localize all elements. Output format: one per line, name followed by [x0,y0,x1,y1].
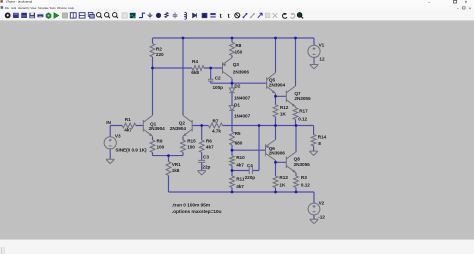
icon: zoom in [97,13,101,17]
wire Q3 collector / Q5 base row [211,79,267,84]
ground below R14 [309,151,317,155]
svg-text:A: A [157,13,160,18]
svg-text:1k8: 1k8 [172,168,180,173]
transistor Q2 (mirrored) [183,115,192,136]
transistor Q7 [286,86,295,107]
svg-text:C4: C4 [247,163,253,168]
icon: cross probe (pale) [273,13,278,18]
icon: capacitor [173,12,178,18]
icon: component [202,13,208,18]
wire Q2 collector to rail [182,38,184,115]
svg-text:4k7: 4k7 [236,163,244,168]
node dots output row [258,124,261,127]
icon: pane vertical [70,13,76,18]
svg-text:IN: IN [106,120,111,125]
resistor R12 [273,105,278,117]
wire R3 leads [295,173,297,192]
svg-text:R12: R12 [280,105,289,110]
svg-text:2N3055: 2N3055 [294,162,311,167]
icon: label [156,13,161,18]
svg-text:100p: 100p [213,85,224,90]
node dot R4/C2/Q3 base [209,67,212,70]
icon: undo [283,13,287,18]
transistor Q1 [143,115,152,136]
resistor R6 [199,140,204,152]
wire Q7 collector to rail [295,38,297,86]
svg-text:V2: V2 [319,201,325,206]
node dot Q6 collector / R13 / Q8 base [274,161,277,164]
svg-text:22p: 22p [202,165,210,170]
svg-text:Simulate: Simulate [38,6,49,10]
icon: wire [139,13,145,17]
svg-text:1K: 1K [279,183,286,188]
wire Q1 emitter / R9 leads [152,137,154,156]
wire output row [223,126,314,152]
svg-text:2N3904: 2N3904 [149,126,166,131]
icon: diode [193,13,197,17]
resistor R14 [311,135,316,146]
svg-text:Help: Help [68,6,74,10]
icon: inductor [185,12,187,19]
wire V1 to rail [313,38,315,45]
svg-text:220p: 220p [245,175,256,180]
wire V3 leads [109,126,111,160]
ground below V1 [310,65,318,69]
icon: zoom out [105,13,109,17]
svg-text:Hierarchy: Hierarchy [18,6,30,10]
svg-text:R2: R2 [156,46,162,51]
svg-text:R8: R8 [235,43,241,48]
wire R17 leads [295,107,297,126]
wire R6 leads [201,126,203,161]
svg-text:SINE(0 0.9 1K): SINE(0 0.9 1K) [115,147,147,152]
svg-text:R15: R15 [187,139,196,144]
svg-text:R17: R17 [299,109,308,114]
transistor Q5 [267,73,276,94]
resistor R1 [122,123,136,128]
svg-text:4k7: 4k7 [206,144,214,149]
svg-text:6k8: 6k8 [191,70,199,75]
node dot Q3 collector [231,82,234,85]
svg-text:0.12: 0.12 [301,183,310,188]
svg-text:R13: R13 [279,175,288,180]
svg-text:Q2: Q2 [179,121,186,126]
icon: move [210,13,215,15]
svg-text:VR1: VR1 [172,162,181,167]
resistor R13 [273,176,278,188]
icon: resistor [165,12,168,17]
icon: find (pale) [265,13,270,18]
icon: run [54,13,59,19]
transistor Q6 (PNP) [266,140,276,161]
icon: pane horizontal [79,13,85,18]
icon: waveform pane [130,13,136,18]
icon: copy [243,13,247,17]
svg-text:2N3904: 2N3904 [170,126,187,131]
wire C2 leads [210,68,212,83]
node dots bottom rail [231,191,234,194]
svg-text:R1: R1 [125,117,131,122]
wire C3 to ground [201,162,203,170]
wire diode bias string [231,83,233,192]
icon: cascade [88,13,93,17]
svg-text:D1: D1 [234,102,240,107]
icon: redo (pale) [290,13,294,18]
svg-text:Window: Window [57,6,68,10]
icon: halt (disabled) [62,13,67,18]
svg-text:Tools: Tools [49,6,56,10]
svg-text:R6: R6 [206,139,212,144]
svg-text:R14: R14 [318,135,327,140]
status bar [0,240,474,254]
wire C4 path to output [232,126,259,171]
wire Q8 collector to output [295,126,297,152]
svg-text:R11: R11 [236,177,245,182]
svg-text:150: 150 [235,50,243,55]
resistor R17 [293,108,298,120]
node dots top rail [182,37,185,40]
wire input to R1 and Q1 base [110,125,143,127]
ground below C3 [198,171,206,175]
icon: ground [148,13,153,18]
wire Q6 base row [232,149,266,151]
wire R2 leads [152,38,154,68]
svg-text:V1: V1 [319,43,325,48]
wire top rail V+ [153,37,315,39]
wire Q5 collector to rail [275,38,277,73]
resistor R9 [150,140,155,152]
capacitor C4 [249,167,252,174]
svg-text:C2: C2 [215,75,221,80]
icon: duplicate [258,13,262,18]
ground below V3 [106,159,114,163]
diode D1 [229,106,235,111]
svg-text:V3: V3 [115,134,121,139]
svg-text:2N3906: 2N3906 [233,69,250,74]
resistor R4 [192,66,204,71]
resistor R8 [230,42,235,55]
svg-text:R4: R4 [192,59,198,64]
wire bottom rail V- [169,191,315,193]
svg-text:12: 12 [319,57,325,62]
svg-text:R9: R9 [157,139,163,144]
svg-text:R10: R10 [236,155,245,160]
icon: open example [21,13,27,18]
svg-text:2N3904: 2N3904 [269,83,286,88]
icon: print [37,14,43,17]
svg-text:View: View [30,6,37,10]
svg-text:LTspice - [audioamp]: LTspice - [audioamp] [6,0,33,4]
icon: open folder [13,13,19,18]
menu bar [0,5,474,10]
svg-text:Q8: Q8 [294,157,301,162]
wire Q5 emitter node / Q7 base [276,94,287,97]
node dot R10/R11/C4 [231,169,234,172]
resistor R2 [150,44,155,57]
title bar [0,0,474,5]
svg-text:8: 8 [318,141,321,146]
icon: search [297,13,302,18]
node dot emitter row / VR1 [167,154,170,157]
wire V2 leads [313,192,315,219]
capacitor C3 [198,160,205,162]
svg-text:File: File [5,6,10,10]
svg-text:R5: R5 [235,131,241,136]
svg-text:.options maxstep=10u: .options maxstep=10u [172,209,222,215]
icon: paste (pale) [250,13,254,17]
svg-text:✕: ✕ [465,0,468,4]
node dot Q2 base / R6 / R7 [200,124,203,127]
resistor VR1 [166,162,171,176]
svg-text:100: 100 [157,144,165,149]
svg-text:✕: ✕ [469,6,472,10]
resistor R7 [209,123,223,128]
icon: new [5,13,11,19]
svg-text:-12: -12 [318,215,325,220]
svg-text:D2: D2 [234,84,240,89]
svg-text:R3: R3 [301,175,307,180]
svg-text:680: 680 [235,140,243,145]
node dot R2/R4 [151,67,154,70]
resistor R11 [230,176,235,188]
svg-text:2N3055: 2N3055 [294,96,311,101]
svg-text:Q3: Q3 [233,62,240,67]
node dot R5/R10/Q6 base [231,149,234,152]
svg-text:0.12: 0.12 [298,117,307,122]
wire Q2 base to R7 [192,125,208,127]
wire Q1 collector [152,68,154,115]
diode D2 [229,88,235,93]
svg-text:4k7: 4k7 [236,184,244,189]
wire R8 leads [231,38,233,58]
svg-text:2N3906: 2N3906 [269,151,286,156]
wire R4 row [153,67,223,69]
wire R12 leads [275,96,277,125]
svg-text:.tran 0 100m 95m: .tran 0 100m 95m [172,203,211,209]
resistor R15 [181,140,186,152]
wire Q2 emitter / R15 leads [182,137,184,156]
svg-text:4k7: 4k7 [124,127,132,132]
svg-text:R7: R7 [213,119,219,124]
app icon [0,0,2,2]
transistor Q8 [286,152,296,173]
resistor R10 [230,156,235,166]
capacitor C2 [208,79,214,81]
icon: cut [235,13,240,18]
voltage source V3 [104,137,116,149]
icon: save [29,13,35,18]
wire VR1 leads [168,156,170,192]
svg-text:C3: C3 [203,155,209,160]
toolbar [0,10,474,20]
voltage source V2 [308,203,320,215]
svg-text:1K: 1K [280,112,287,117]
svg-text:220: 220 [156,52,164,57]
wire Q6 emitter to output [275,126,277,140]
child window icon [1,6,4,9]
svg-text:–: – [457,6,459,10]
resistor R3 [294,176,299,188]
wire Q6 collector node / Q8 base [276,160,287,162]
resistor R5 [230,132,235,146]
svg-text:1N4007: 1N4007 [234,96,251,101]
ground below V2 [310,219,318,223]
wire R13 leads [275,162,277,192]
transistor Q3 (PNP) [223,58,233,79]
icon: zoom full [113,13,117,17]
svg-text:100: 100 [187,144,195,149]
icon: grid (pale) [122,13,127,18]
svg-text:Edit: Edit [11,6,16,10]
icon: control panel (green hammer) [46,12,52,19]
node dot Q5 emitter [274,95,277,98]
svg-text:4.7k: 4.7k [212,129,221,134]
canvas separator [0,20,474,22]
svg-text:1N4007: 1N4007 [234,114,251,119]
voltage source V1 [308,45,320,64]
wire emitter row [153,155,184,157]
